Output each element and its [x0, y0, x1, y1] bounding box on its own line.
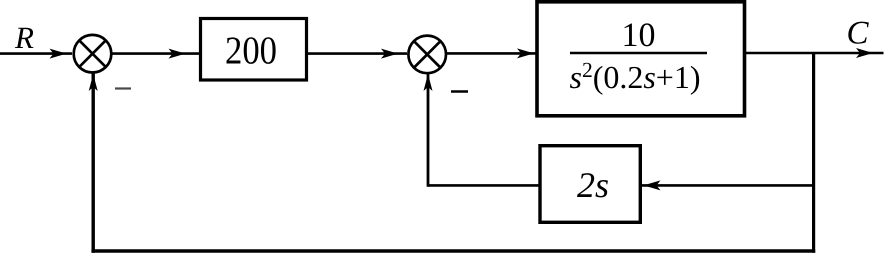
block 200 — [201, 19, 307, 81]
wire: plant output to C — [746, 48, 884, 58]
minus sign at S2 — [451, 90, 468, 92]
wire: S2 to plant block — [446, 48, 537, 58]
wire: outer feedback left rise to S1 (up arrow) — [89, 73, 98, 253]
wire: tap to 2s block (inner feedback) — [641, 180, 814, 190]
svg-text:C: C — [847, 16, 870, 52]
svg-text:2s: 2s — [577, 165, 609, 205]
svg-text:R: R — [14, 20, 34, 55]
node: output tap vertical line — [812, 53, 815, 253]
svg-text:10: 10 — [622, 17, 656, 54]
minus sign at S1 — [115, 87, 131, 89]
block 2s — [540, 146, 640, 223]
plant block G(s) = 10 / s^2(0.2s+1) — [537, 2, 745, 116]
svg-text:200: 200 — [225, 29, 277, 73]
wire: S1 to block 200 — [112, 49, 200, 59]
summing junction S1 — [74, 35, 112, 73]
wire: R input to summing junction S1 — [0, 49, 72, 59]
wire: 200 to summing junction S2 — [307, 49, 407, 59]
wire: 2s output to S2 (up arrow) — [424, 74, 541, 187]
wire: outer feedback bottom run — [91, 249, 815, 252]
summing junction S2 — [408, 36, 446, 74]
